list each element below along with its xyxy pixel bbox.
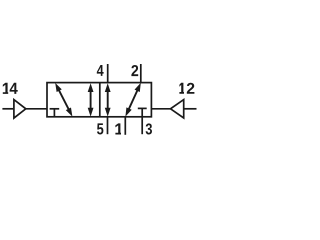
port 4 stub [107,64,109,83]
port 1 stub [124,117,126,135]
label port 2 [131,65,138,76]
right square flow arrow 4-5 [105,83,111,116]
port 3 stub [141,117,143,134]
pilot line 14 outer [2,108,13,110]
port 5 stub [107,117,109,134]
label port 1 [115,123,121,134]
label 14 [3,83,18,94]
left square blocked port 5 crossbar [50,108,60,110]
pilot line 14 inner [25,108,47,110]
left square blocked port 5 stem [53,109,55,117]
pilot line 12 outer [184,108,197,110]
pilot line 12 inner [151,108,171,110]
right square flow arrow 1-2 [125,83,140,117]
right square blocked port 3 stem [141,108,143,116]
label port 3 [146,123,152,134]
valve body (two-position box) [47,83,151,117]
label port 5 [97,123,103,134]
port 2 stub [140,64,142,83]
5/2-way pneumatic valve schematic [0,0,200,200]
label 12 [179,83,194,94]
label port 4 [97,65,104,76]
divider between positions [99,83,101,117]
left square flow arrow 4-1 [55,83,72,117]
pilot triangle 14 [14,100,26,119]
right square blocked port 3 crossbar [138,107,147,109]
pilot triangle 12 [171,100,184,118]
left square flow arrow 2-3 [88,83,94,116]
